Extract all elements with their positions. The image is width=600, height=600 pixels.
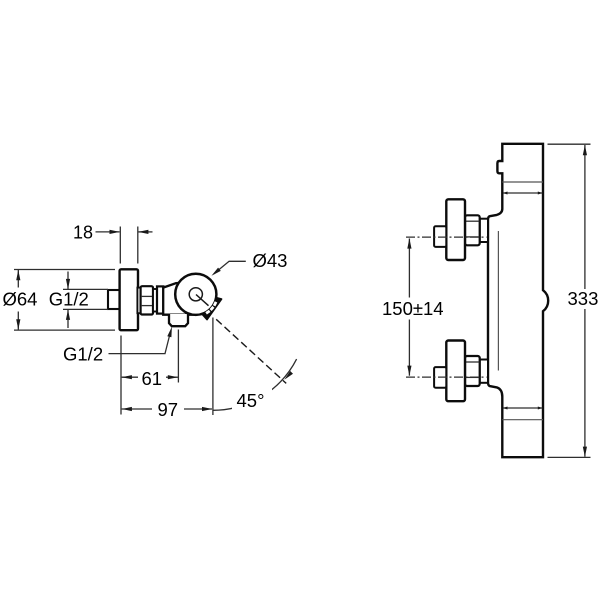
extension line wall face — [120, 336, 122, 415]
dimension 150 line bottom — [408, 320, 410, 376]
valve inlet cylinder — [157, 286, 163, 313]
body groove bottom with arrows — [503, 407, 542, 409]
45 deg dimension arc — [213, 359, 297, 410]
svg-text:18: 18 — [73, 222, 93, 242]
dimension Dia64 line bottom — [17, 312, 19, 330]
svg-text:61: 61 — [142, 368, 163, 389]
svg-text:333: 333 — [568, 288, 599, 309]
dimension 61 line right — [166, 376, 178, 378]
union step ring — [153, 289, 157, 312]
dimension G1/2 arrow bottom — [67, 310, 69, 328]
extension line stub top — [63, 288, 108, 290]
extension line flange bottom — [14, 329, 115, 331]
dimension 97 line right — [184, 408, 212, 410]
union hex nut (side view) — [141, 286, 153, 314]
bottom union hex nut — [465, 356, 480, 386]
extension line bar bottom — [548, 456, 591, 458]
control knob circle Dia43 — [175, 274, 216, 315]
body groove top with arrows — [503, 192, 542, 194]
svg-text:G1/2: G1/2 — [63, 343, 103, 364]
boss inner edge line — [497, 231, 499, 371]
dimension 333 text — [566, 289, 599, 309]
dimension 333 line — [584, 145, 586, 457]
bottom centerline — [406, 376, 487, 378]
svg-text:G1/2: G1/2 — [49, 289, 89, 310]
extension line stub bottom — [63, 308, 108, 310]
45 deg arc arrowhead — [284, 371, 293, 380]
dashed 45 deg axis line — [216, 319, 286, 383]
extension line bar top — [548, 143, 591, 145]
top union hex nut — [465, 215, 480, 245]
dimension 18 line right — [138, 231, 152, 233]
body sleeve edge top — [502, 181, 543, 183]
radius line from knob center — [196, 295, 209, 306]
dimension Dia64 line top — [17, 270, 19, 288]
valve body (side view) — [163, 282, 196, 314]
union washer — [137, 288, 140, 314]
svg-text:97: 97 — [158, 399, 179, 420]
svg-text:Ø64: Ø64 — [3, 289, 38, 310]
top union cylinder — [480, 219, 488, 242]
spout nozzle aerator at 45 deg — [202, 298, 222, 320]
dimension 97 line left — [122, 408, 152, 410]
bottom wall flange — [446, 341, 465, 402]
top wall flange — [446, 199, 465, 260]
bottom union cylinder — [480, 360, 488, 383]
extension line flange left — [119, 227, 121, 264]
top pipe cap — [434, 226, 446, 247]
extension line spout face — [212, 318, 214, 416]
dimension 150 line top — [408, 239, 410, 298]
knob inner circle — [189, 288, 202, 301]
mixer body bar (front view) — [488, 144, 548, 457]
wall flange escutcheon (side view) — [120, 269, 138, 330]
dimension 45 deg text — [232, 388, 272, 409]
top centerline — [406, 236, 487, 238]
extension line port axis — [177, 330, 179, 383]
wall pipe stub (side view) — [108, 290, 121, 309]
dimension 18 line left — [96, 231, 120, 233]
extension line flange right — [137, 227, 139, 264]
leader line Dia43 — [214, 261, 246, 274]
bottom outlet port G1/2 — [169, 314, 188, 326]
leader line G1/2 outlet — [109, 331, 171, 354]
dimension 61 line left — [122, 376, 138, 378]
svg-text:45°: 45° — [237, 390, 265, 411]
dimension 333 arrows — [583, 145, 587, 155]
bottom pipe cap — [434, 367, 446, 388]
svg-text:150±14: 150±14 — [382, 298, 444, 319]
svg-text:Ø43: Ø43 — [253, 250, 288, 271]
dimension G1/2 arrow top — [67, 272, 69, 290]
body sleeve edge bottom — [502, 419, 543, 421]
extension line flange top — [14, 269, 115, 271]
